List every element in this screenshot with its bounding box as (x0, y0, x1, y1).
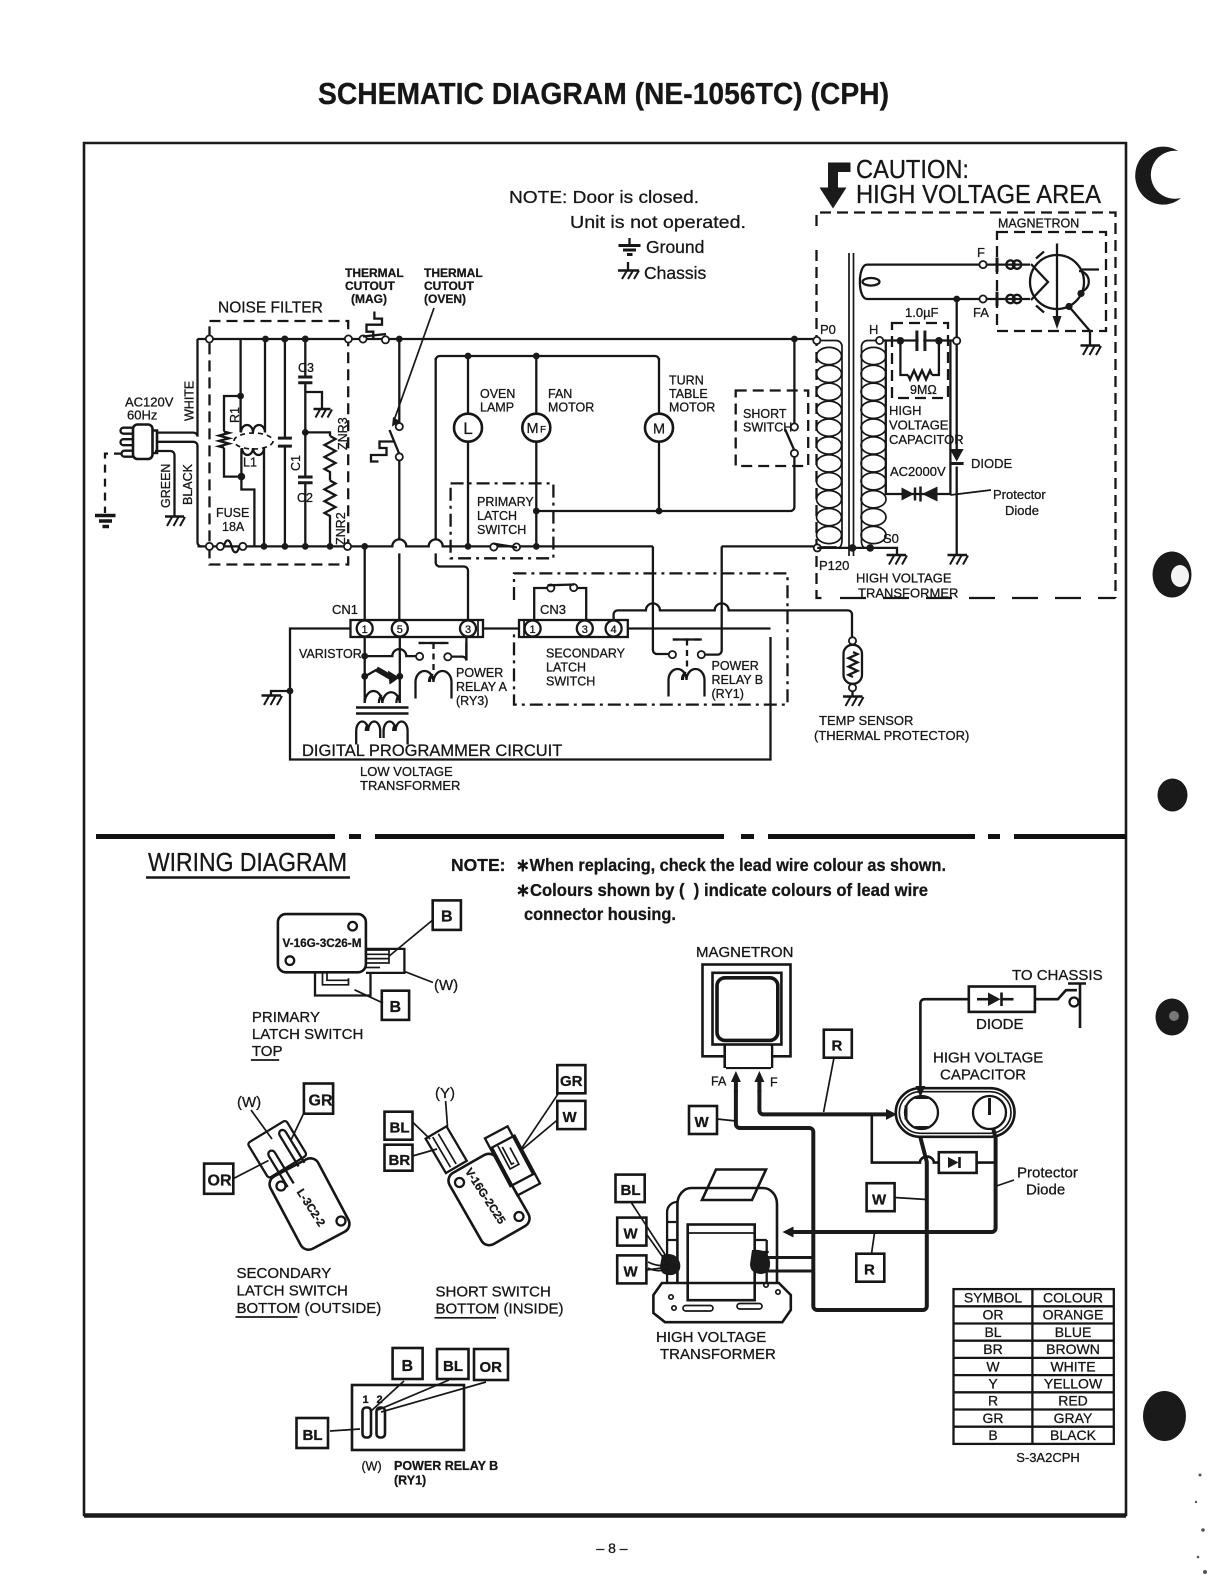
svg-text:LOW VOLTAGE: LOW VOLTAGE (360, 764, 453, 779)
svg-text:(Y): (Y) (435, 1085, 455, 1102)
svg-text:ORANGE: ORANGE (1043, 1307, 1104, 1323)
svg-text:MAGNETRON: MAGNETRON (998, 217, 1079, 231)
svg-text:W: W (695, 1114, 710, 1131)
node: open circle rail at box right (345, 335, 352, 342)
leader W (717, 1119, 736, 1121)
transformer bell cover (677, 1188, 777, 1283)
bottom rail right portion (722, 545, 814, 547)
svg-text:VOLTAGE: VOLTAGE (889, 418, 949, 433)
svg-text:LATCH SWITCH: LATCH SWITCH (252, 1026, 363, 1043)
svg-text:POWER: POWER (456, 666, 503, 680)
svg-text:Protector: Protector (993, 487, 1046, 502)
svg-text:BROWN: BROWN (1046, 1341, 1100, 1357)
high voltage area dashed box (817, 213, 1116, 599)
wire R1/L1 top branch (224, 339, 241, 477)
wire F to magnetron (880, 263, 1030, 265)
HV cap dashed box (1.0uF) (892, 323, 948, 398)
svg-text:B: B (441, 909, 453, 926)
protector diode symbol (948, 1157, 960, 1168)
svg-text:(W): (W) (237, 1094, 261, 1111)
node dot rail TC oven branch (396, 336, 403, 343)
svg-text:H: H (869, 322, 878, 337)
chassis symbol (digital box) (262, 696, 283, 706)
svg-text:HIGH: HIGH (889, 403, 922, 418)
bottom power rail left portion (with bumps at 399.3 and 435.7) (198, 539, 653, 546)
thick wire R: cap right down to transformer arrow (792, 1129, 996, 1232)
secondary latch connector (rotated) (247, 1120, 316, 1193)
wire TC oven to CN1 pin5 (398, 461, 400, 621)
wire rail to CN1 pin1 (364, 546, 366, 620)
leader (Y) down (446, 1101, 448, 1127)
svg-text:M: M (653, 422, 665, 438)
svg-text:SYMBOL: SYMBOL (964, 1290, 1023, 1306)
svg-text:L: L (463, 419, 472, 438)
svg-text:18A: 18A (222, 520, 245, 534)
resistor 9M zigzag (908, 371, 932, 380)
fuse symbol on bottom rail (206, 540, 247, 552)
chassis symbol (magnetron) (1081, 346, 1102, 356)
transformer lamination top plate (702, 1170, 766, 1201)
svg-text:GR: GR (560, 1073, 583, 1090)
section divider heavy dashed line (96, 834, 1126, 839)
svg-text:1.0µF: 1.0µF (905, 305, 939, 320)
node dot short switch rail (791, 336, 798, 343)
magnetron assembly mid (713, 973, 782, 1045)
wire rail to short switch (793, 339, 795, 424)
magnetron antenna dome (1078, 271, 1089, 292)
svg-text:5: 5 (397, 624, 403, 636)
thin leads from left terminal (648, 1262, 670, 1271)
svg-text:FA: FA (711, 1075, 727, 1089)
CN1 connector strip (351, 620, 484, 637)
CN3 pin 3 (577, 621, 593, 637)
label box GR (short switch) (557, 1065, 585, 1093)
secondary latch dash-dot box (514, 573, 788, 704)
right connector housing (366, 949, 404, 973)
HV capacitor body (wiring) (896, 1088, 1015, 1137)
svg-text:OR: OR (480, 1359, 503, 1376)
wire pin5 down (399, 637, 401, 676)
right bobbin detail (755, 1240, 769, 1283)
label box OR (204, 1164, 233, 1194)
FA arrow into magnetron (734, 1080, 738, 1092)
svg-text:C3: C3 (298, 361, 314, 375)
label box BL (short switch) (385, 1112, 413, 1140)
label box W (transformer 2) (617, 1255, 646, 1283)
CN1 pin 5 (392, 621, 408, 637)
top power rail (198, 338, 814, 340)
capacitor C1 (278, 339, 292, 546)
node dots C1 (282, 336, 289, 343)
svg-text:BL: BL (984, 1324, 1001, 1340)
transformer terminal stubs right (762, 1258, 813, 1272)
annotation arrow to TC oven (395, 308, 435, 419)
leader to (W) (404, 971, 433, 982)
AC plug prongs (121, 428, 134, 457)
inductor L1 upper winding (241, 396, 265, 433)
svg-text:R: R (864, 1262, 875, 1279)
svg-text:GR: GR (309, 1093, 333, 1110)
svg-text:CN1: CN1 (332, 602, 358, 617)
svg-text:ZNR3: ZNR3 (336, 417, 350, 450)
leader R to wire (824, 1058, 834, 1112)
svg-text:GREEN: GREEN (159, 464, 173, 508)
svg-text:YELLOW: YELLOW (1044, 1376, 1103, 1392)
HV transformer drawing: base plate (653, 1283, 790, 1322)
node dot C2 bottom (302, 543, 309, 550)
svg-text:B: B (402, 1358, 414, 1375)
svg-text:RELAY A: RELAY A (456, 680, 508, 694)
svg-text:S-3A2CPH: S-3A2CPH (1016, 1450, 1080, 1465)
main diode line (956, 344, 958, 554)
svg-text:9MΩ: 9MΩ (910, 383, 937, 397)
svg-text:SECONDARY: SECONDARY (546, 647, 626, 661)
svg-text:CUTOUT: CUTOUT (424, 279, 474, 293)
node dot FA wire (953, 296, 960, 303)
wire rail to TC oven switch (398, 339, 400, 423)
svg-text:C2: C2 (297, 491, 313, 505)
label box BR (short switch) (385, 1145, 413, 1171)
svg-text:Diode: Diode (1005, 503, 1039, 518)
svg-text:NOISE FILTER: NOISE FILTER (218, 300, 323, 317)
power relay A coil (416, 671, 452, 699)
svg-text:FUSE: FUSE (216, 506, 249, 520)
node dot R1 top (237, 393, 244, 400)
base slots (669, 1283, 780, 1311)
svg-text:(RY1): (RY1) (394, 1474, 426, 1488)
svg-text:TEMP SENSOR: TEMP SENSOR (819, 713, 913, 728)
leader OR to connector (233, 1161, 268, 1179)
svg-text:BLUE: BLUE (1055, 1324, 1092, 1340)
svg-text:(RY1): (RY1) (712, 687, 744, 701)
svg-text:BLACK: BLACK (181, 463, 195, 505)
oven lamp L (454, 356, 482, 546)
caution arrow (820, 163, 851, 209)
label box B (top) (433, 900, 461, 930)
left bobbin (667, 1202, 677, 1283)
svg-text:SHORT: SHORT (743, 407, 787, 421)
label box W (transformer 1) (617, 1218, 646, 1246)
svg-text:TRANSFORMER: TRANSFORMER (660, 1346, 776, 1363)
primary latch dash-dot box (451, 483, 554, 558)
resistor R1 (219, 432, 229, 448)
noise filter dashed box (210, 321, 349, 565)
node dot pin5 bottom (396, 673, 403, 680)
protector diode box (wiring) (939, 1152, 977, 1173)
right connector terminals (366, 950, 389, 963)
transformer P120 terminal (814, 544, 821, 551)
node dot R1 bottom (238, 473, 246, 481)
svg-text:POWER: POWER (712, 659, 759, 673)
leaders to relay labels (330, 1380, 486, 1431)
earth ground symbol (95, 516, 116, 527)
svg-text:NOTE: Door is closed.: NOTE: Door is closed. (509, 187, 699, 207)
svg-text:POWER RELAY B: POWER RELAY B (394, 1459, 498, 1473)
svg-text:CUTOUT: CUTOUT (345, 279, 395, 293)
short switch body (rotated) (445, 1151, 533, 1249)
antenna lead (1082, 268, 1099, 270)
svg-text:W: W (986, 1358, 1000, 1374)
primary coil spine (821, 341, 843, 549)
node dots varistor (361, 653, 368, 660)
svg-text:MOTOR: MOTOR (548, 401, 594, 415)
svg-text:3: 3 (582, 624, 588, 636)
svg-text:OR: OR (983, 1307, 1004, 1323)
lamp group rail (436, 356, 659, 360)
scan mark: blob 4 (1156, 999, 1189, 1036)
F connector marks (997, 258, 1021, 273)
transformer P0 terminal (813, 337, 820, 344)
left terminal blob (660, 1254, 680, 1275)
capacitor C2 (298, 432, 313, 546)
label box R (bottom) (856, 1254, 884, 1282)
svg-text:Protector: Protector (1017, 1165, 1078, 1182)
svg-text:∗Colours shown by ( ) indicat: ∗Colours shown by ( ) indicate colours o… (516, 880, 928, 900)
svg-text:F: F (770, 1076, 778, 1090)
chassis symbol (diode) (948, 555, 969, 565)
HV capacitor plates (917, 331, 925, 352)
svg-text:DIODE: DIODE (971, 456, 1013, 471)
svg-text:OR: OR (208, 1173, 232, 1190)
CN3 connector strip (519, 620, 628, 637)
svg-text:FAN: FAN (548, 387, 572, 401)
right terminal blob (750, 1250, 770, 1274)
fan motor MF (522, 356, 550, 546)
node dot ZNR branch (302, 429, 309, 436)
svg-text:OVEN: OVEN (480, 387, 515, 401)
leader to B box top (389, 920, 432, 956)
svg-text:W: W (872, 1192, 887, 1209)
wire rail down to relay B left contact (653, 546, 669, 654)
svg-text:BOTTOM (OUTSIDE): BOTTOM (OUTSIDE) (237, 1300, 382, 1317)
svg-text:TOP: TOP (252, 1043, 283, 1060)
svg-text:THERMAL: THERMAL (424, 266, 483, 280)
magnetron circle (1030, 255, 1084, 309)
leader R bottom (872, 1233, 875, 1254)
svg-text:LATCH: LATCH (477, 509, 517, 523)
scan mark: blob 5 (1143, 1391, 1186, 1441)
svg-text:P0: P0 (820, 322, 836, 337)
svg-text:AC2000V: AC2000V (890, 464, 946, 479)
scan mark: blob 3 (1158, 779, 1188, 812)
AC plug body (133, 425, 157, 460)
node dots magnetron (1077, 290, 1084, 297)
leader BL transformer (631, 1202, 668, 1259)
LVT secondary winding left (356, 722, 380, 745)
leader W1 (646, 1234, 667, 1263)
svg-text:RED: RED (1058, 1393, 1088, 1409)
svg-text:V-16G-3C26-M: V-16G-3C26-M (283, 936, 362, 950)
turn table motor M (645, 358, 673, 511)
short switch connector flag (rotated) (492, 1136, 540, 1196)
svg-text:F: F (977, 245, 985, 260)
svg-text:∗When replacing, check the lea: ∗When replacing, check the lead wire col… (516, 855, 946, 875)
svg-text:BL: BL (621, 1182, 641, 1199)
svg-text:1: 1 (362, 624, 368, 636)
svg-text:Diode: Diode (1026, 1182, 1065, 1199)
svg-text:WHITE: WHITE (1050, 1358, 1095, 1374)
svg-text:SCHEMATIC DIAGRAM (NE-1056TC): SCHEMATIC DIAGRAM (NE-1056TC) (CPH) (318, 77, 889, 111)
node dots lamp (465, 353, 472, 360)
power relay A T-bar (419, 643, 449, 670)
varistor ZNR2 (325, 481, 336, 547)
magnetron center electrode with arrow (1056, 244, 1058, 318)
low voltage transformer primary winding (365, 676, 400, 703)
capacitor C3 (298, 339, 312, 432)
svg-text:F: F (540, 425, 546, 436)
ground symbol (legend) (619, 238, 641, 255)
svg-text:Chassis: Chassis (644, 263, 706, 283)
svg-text:COLOUR: COLOUR (1043, 1290, 1103, 1306)
node dot (261, 543, 268, 550)
scan mark: blob 2 (1153, 552, 1192, 598)
node dot M bottom (656, 508, 663, 515)
temp sensor top terminal (849, 637, 856, 644)
svg-text:NOTE:: NOTE: (451, 855, 505, 875)
label box BL (relay) (437, 1349, 469, 1379)
leader BR (413, 1149, 438, 1156)
temp sensor resistor zigzag (849, 652, 858, 677)
wire H to FA junction (883, 339, 953, 341)
svg-text:TRANSFORMER: TRANSFORMER (360, 778, 460, 793)
LVT core lines (356, 708, 409, 714)
protector diode pair (902, 487, 938, 502)
label box GR (304, 1084, 333, 1114)
F terminal circle (979, 261, 986, 268)
leader GR to slot (522, 1093, 559, 1148)
CN1 pin 1 (357, 621, 373, 637)
svg-text:BR: BR (983, 1341, 1002, 1357)
diode symbol (950, 449, 964, 464)
varistor ZNR3 (325, 436, 336, 481)
thick wire F to cap left (759, 1090, 888, 1114)
magnetron assembly inner (717, 978, 778, 1041)
magnetron dashed box (997, 232, 1106, 331)
svg-text:LATCH: LATCH (546, 661, 586, 675)
svg-text:BL: BL (303, 1427, 323, 1444)
diode symbol (wiring) (977, 993, 1014, 1007)
leader protector diode (950, 490, 991, 495)
svg-text:BOTTOM (INSIDE): BOTTOM (INSIDE) (436, 1301, 564, 1318)
chassis symbol (temp sensor) (843, 697, 864, 707)
node dot ground branch (287, 688, 294, 695)
svg-text:LAMP: LAMP (480, 401, 514, 415)
cap right electrode (973, 1096, 1006, 1129)
leader BL (413, 1122, 431, 1139)
svg-text:WHITE: WHITE (183, 381, 197, 421)
wire to ZNR3 (305, 432, 330, 436)
svg-text:TO CHASSIS: TO CHASSIS (1012, 967, 1103, 984)
label box BL (transformer) (616, 1175, 645, 1203)
bleeder resistor 9M loop (900, 341, 939, 375)
svg-text:(W): (W) (434, 977, 458, 994)
svg-text:M: M (526, 421, 538, 437)
node dot C3 top (302, 336, 309, 343)
svg-text:RELAY B: RELAY B (712, 673, 764, 687)
yellow lead strip (426, 1126, 467, 1173)
svg-text:TABLE: TABLE (669, 387, 708, 401)
svg-text:GR: GR (983, 1410, 1004, 1426)
filament winding loop (863, 278, 880, 286)
chassis symbol (transformer S0) (887, 555, 908, 565)
svg-text:60Hz: 60Hz (127, 408, 157, 423)
svg-text:LATCH SWITCH: LATCH SWITCH (237, 1283, 348, 1300)
magnetron filament ticks (1036, 252, 1044, 313)
wire pin4 up and right to temp sensor (bumps over relay verticals) (614, 603, 852, 637)
svg-text:R: R (832, 1038, 843, 1055)
wire CN1 to CN3 (483, 627, 519, 629)
svg-text:CN3: CN3 (540, 602, 566, 617)
chassis symbol (green wire) (165, 517, 185, 527)
temp sensor body (844, 645, 863, 684)
LVT secondary winding right (384, 722, 408, 745)
primary latch switch contacts on rail (490, 543, 520, 550)
svg-text:W: W (563, 1109, 578, 1126)
wire temp sensor to chassis (851, 691, 853, 696)
node dot pin1 rail (361, 543, 368, 550)
protector diode loop (886, 341, 951, 494)
C3 chassis elbow (305, 392, 322, 409)
secondary coil spine (861, 341, 875, 548)
thermal cutout (OVEN) bimetal symbol (371, 442, 394, 462)
wire relay A to pin3 (451, 643, 466, 661)
svg-text:W: W (624, 1263, 639, 1280)
svg-text:CAPACITOR: CAPACITOR (889, 432, 964, 447)
temp sensor bottom terminal (849, 684, 856, 691)
digital programmer circuit box (290, 629, 771, 760)
primary coil loops (817, 347, 842, 543)
body screw holes (348, 922, 357, 931)
label box W (magnetron) (689, 1106, 717, 1134)
bottom connector housing (315, 972, 371, 995)
relay slot 2 (377, 1408, 386, 1438)
svg-text:connector housing.: connector housing. (524, 904, 676, 924)
power relay A contacts (416, 653, 451, 661)
svg-text:PRIMARY: PRIMARY (252, 1009, 320, 1026)
leader protector diode (997, 1180, 1015, 1186)
svg-text:WIRING DIAGRAM: WIRING DIAGRAM (148, 847, 347, 877)
svg-text:FA: FA (973, 305, 989, 320)
short switch contacts (785, 423, 798, 457)
magnetron cathode chevron (1031, 264, 1048, 300)
svg-text:SWITCH: SWITCH (477, 523, 526, 537)
svg-text:MOTOR: MOTOR (669, 401, 715, 415)
FA terminal circle (979, 295, 986, 302)
svg-text:B: B (988, 1427, 997, 1443)
H terminal (876, 337, 883, 344)
secondary coil loops (861, 347, 886, 543)
colour table frame (954, 1289, 1114, 1444)
varistor symbol (thick arrow) (365, 670, 377, 677)
chassis bracket (1068, 983, 1086, 1028)
node dots bottom (849, 544, 857, 552)
svg-text:S0: S0 (883, 531, 899, 546)
magnetron assembly outer (703, 965, 791, 1057)
svg-text:Unit is not operated.: Unit is not operated. (570, 212, 746, 232)
scan speckles bottom right (1195, 1474, 1207, 1575)
svg-text:BL: BL (443, 1358, 463, 1375)
magnetron neck (725, 1045, 772, 1068)
svg-text:HIGH VOLTAGE AREA: HIGH VOLTAGE AREA (856, 179, 1102, 209)
svg-text:1: 1 (530, 624, 536, 636)
svg-text:P120: P120 (819, 558, 849, 573)
svg-text:TRANSFORMER: TRANSFORMER (858, 586, 958, 601)
CN3 upper switch loop (534, 588, 586, 620)
filament winding hairpin (860, 265, 880, 299)
thermal cutout (OVEN) switch (390, 423, 403, 461)
short switch dashed box (736, 391, 809, 467)
svg-text:THERMAL: THERMAL (345, 266, 404, 280)
